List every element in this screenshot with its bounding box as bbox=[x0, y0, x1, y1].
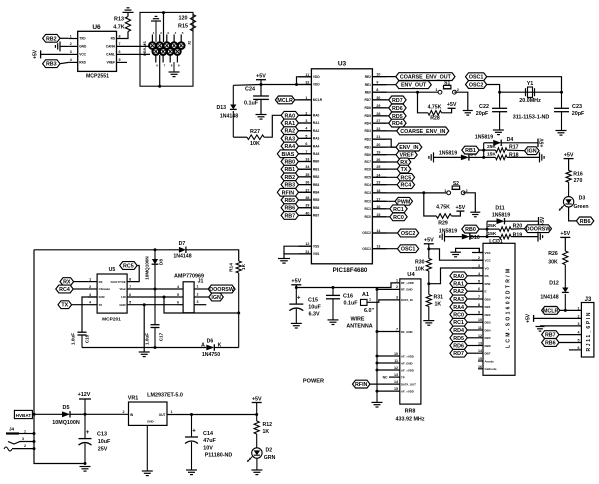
svg-text:CANL: CANL bbox=[106, 53, 115, 57]
svg-text:U5: U5 bbox=[109, 267, 116, 273]
svg-text:RD6: RD6 bbox=[392, 106, 403, 112]
node ENV_IN with jog from pin 21 bbox=[372, 139, 421, 151]
ground at J3 pin3 bbox=[536, 326, 582, 331]
node RB6 at J3 bbox=[542, 339, 582, 347]
svg-text:C14: C14 bbox=[203, 431, 213, 437]
node ENV_OUT right of U3 bbox=[372, 81, 431, 89]
svg-text:VREF: VREF bbox=[106, 61, 115, 65]
node COARSE_ENV_IN right of U3 bbox=[372, 127, 448, 135]
svg-text:1N5819: 1N5819 bbox=[439, 229, 457, 235]
node RC0 right of U3 bbox=[372, 213, 407, 221]
svg-text:RD1: RD1 bbox=[365, 145, 372, 149]
svg-text:RA4: RA4 bbox=[284, 144, 295, 150]
connector J4 power jack bbox=[4, 427, 36, 452]
wire U5 pin3 to C18 bbox=[82, 297, 97, 332]
IC U3 PIC18F4680 bbox=[311, 61, 372, 275]
svg-text:TX: TX bbox=[401, 167, 408, 173]
diode D8 10MQ100N vertical bbox=[145, 250, 165, 289]
svg-text:5: 5 bbox=[478, 280, 480, 284]
svg-text:4: 4 bbox=[177, 285, 179, 289]
capacitor C17 1.0uF bbox=[145, 289, 164, 348]
ground at S2 bbox=[470, 211, 480, 213]
node RB5 left of U3 bbox=[281, 196, 311, 204]
svg-text:RA2: RA2 bbox=[313, 129, 320, 133]
svg-text:Cathode: Cathode bbox=[485, 367, 497, 371]
node RB6 left of U3 bbox=[281, 204, 311, 212]
svg-text:RA1: RA1 bbox=[284, 121, 295, 127]
capacitor C22 20pF bbox=[476, 92, 507, 130]
svg-text:47uF: 47uF bbox=[203, 438, 216, 444]
svg-text:VR1: VR1 bbox=[128, 395, 139, 401]
label D11 1N5819 bbox=[492, 206, 510, 219]
svg-text:RC0: RC0 bbox=[393, 215, 404, 221]
svg-text:DB3: DB3 bbox=[485, 321, 491, 325]
svg-text:RR8: RR8 bbox=[405, 408, 416, 414]
svg-text:GND: GND bbox=[147, 420, 155, 424]
svg-text:DB6: DB6 bbox=[485, 344, 491, 348]
svg-text:RXD: RXD bbox=[79, 61, 86, 65]
svg-text:LCD1: LCD1 bbox=[489, 239, 503, 245]
wire U5 pin6 LIN to J1 pin5 bbox=[127, 296, 178, 299]
ground at S1 bbox=[463, 110, 473, 112]
svg-text:1.0uF: 1.0uF bbox=[71, 333, 76, 345]
svg-text:+5V: +5V bbox=[456, 205, 466, 211]
svg-text:1K: 1K bbox=[263, 429, 270, 435]
node RB2 left of U3 bbox=[281, 173, 311, 181]
node RB7 at J3 bbox=[542, 331, 582, 339]
node RA1 at LCD pin 5 bbox=[450, 280, 472, 288]
svg-text:OSC1: OSC1 bbox=[469, 75, 484, 81]
power +5V at U6 pin 3 bbox=[33, 49, 69, 59]
power +5V at VR1 output bbox=[252, 396, 262, 416]
regulator VR1 LM2937ET-5.0 bbox=[123, 393, 183, 472]
capacitor C14 47uF 10V bbox=[185, 415, 232, 471]
wire U4 pin13 NC stub bbox=[383, 375, 400, 379]
svg-text:U6: U6 bbox=[92, 24, 101, 31]
svg-text:RB0: RB0 bbox=[313, 160, 320, 164]
capacitor C15 10uF 6.3V bbox=[289, 288, 321, 324]
wire U5 pin7 Vbat to J1 pin4 bbox=[127, 288, 178, 291]
wire CANL to connector bbox=[117, 53, 151, 55]
ground under R31 bbox=[423, 320, 434, 322]
svg-text:15: 15 bbox=[478, 357, 482, 361]
svg-text:1: 1 bbox=[70, 34, 72, 38]
svg-text:D10: D10 bbox=[470, 235, 480, 241]
svg-text:1N4148: 1N4148 bbox=[540, 294, 558, 300]
resistor R20 25K bbox=[487, 223, 525, 232]
svg-text:R15: R15 bbox=[178, 23, 188, 29]
svg-text:J2: J2 bbox=[188, 41, 192, 45]
svg-text:ANTENNA: ANTENNA bbox=[346, 324, 372, 330]
svg-text:D2: D2 bbox=[266, 447, 273, 453]
wire J1 pin3 stub bbox=[199, 304, 206, 306]
svg-text:BIAS: BIAS bbox=[282, 152, 295, 158]
svg-text:VDD: VDD bbox=[313, 83, 320, 87]
capacitor C16 0.1uF bbox=[326, 288, 358, 320]
ground under C14 bbox=[186, 469, 197, 471]
wire junction vertical DOORSW cluster bbox=[486, 221, 489, 238]
svg-text:3: 3 bbox=[89, 293, 91, 297]
svg-text:C13: C13 bbox=[97, 432, 107, 438]
svg-text:RD5: RD5 bbox=[453, 336, 464, 342]
svg-text:10: 10 bbox=[478, 318, 482, 322]
IC U4 RF receiver RR8 433.92MHz bbox=[395, 272, 424, 422]
node IGN bbox=[525, 147, 540, 155]
svg-text:10uF: 10uF bbox=[308, 305, 321, 311]
node RX right of U3 bbox=[372, 158, 410, 166]
svg-text:OSC2: OSC2 bbox=[401, 231, 416, 237]
svg-text:12: 12 bbox=[478, 334, 482, 338]
svg-text:433.92 MHz: 433.92 MHz bbox=[395, 416, 424, 422]
svg-text:NC: NC bbox=[383, 375, 388, 379]
resistor R13 4.7K bbox=[113, 12, 130, 38]
svg-text:+: + bbox=[297, 296, 301, 302]
svg-text:RB3: RB3 bbox=[284, 183, 295, 189]
svg-text:RA4: RA4 bbox=[453, 305, 464, 311]
svg-text:2: 2 bbox=[197, 292, 199, 296]
svg-text:OSC1: OSC1 bbox=[362, 247, 371, 251]
ground at LCD pin1 VSS bbox=[450, 248, 483, 256]
resistor R31 1K bbox=[426, 284, 443, 321]
svg-text:RB2: RB2 bbox=[284, 175, 295, 181]
power +12V bbox=[78, 392, 91, 416]
svg-text:1: 1 bbox=[197, 284, 199, 288]
svg-text:RC1: RC1 bbox=[365, 207, 372, 211]
svg-text:RS: RS bbox=[111, 37, 115, 41]
svg-text:16: 16 bbox=[478, 365, 482, 369]
svg-text:+12V: +12V bbox=[78, 392, 91, 398]
ground above R13 bbox=[123, 11, 134, 13]
svg-text:RA5: RA5 bbox=[313, 152, 320, 156]
node RD6 at LCD pin 13 bbox=[450, 342, 472, 350]
svg-text:1: 1 bbox=[578, 306, 580, 310]
svg-text:RB7: RB7 bbox=[545, 333, 556, 339]
node RFIN left of U3 bbox=[277, 188, 311, 196]
diode D11 clamp to +5V bbox=[487, 218, 539, 224]
svg-text:VO: VO bbox=[485, 266, 490, 270]
svg-text:C24: C24 bbox=[245, 87, 255, 93]
LED D2 GRN bbox=[247, 447, 275, 470]
svg-text:R13: R13 bbox=[114, 17, 124, 23]
wire LIN branch rail under J1 bbox=[164, 297, 239, 313]
IC U6 MCP2551 CAN transceiver bbox=[69, 24, 121, 80]
node RA0 at LCD pin 4 bbox=[450, 272, 472, 280]
svg-text:RB2: RB2 bbox=[313, 175, 320, 179]
svg-text:15K: 15K bbox=[487, 151, 496, 157]
svg-text:RF_GND: RF_GND bbox=[401, 330, 413, 334]
ground under VR1 bbox=[142, 470, 153, 472]
node RD7 at LCD pin 14 bbox=[450, 349, 472, 357]
svg-text:7: 7 bbox=[396, 327, 398, 331]
svg-text:D6: D6 bbox=[207, 339, 214, 345]
svg-text:R16: R16 bbox=[573, 171, 583, 177]
svg-text:RB0: RB0 bbox=[284, 160, 295, 166]
svg-text:Anode: Anode bbox=[485, 359, 495, 363]
svg-text:2: 2 bbox=[24, 444, 26, 448]
node RD4 right of U3 bbox=[372, 119, 406, 127]
node RC1 at LCD pin 10 bbox=[450, 318, 472, 326]
svg-text:RB5: RB5 bbox=[284, 198, 295, 204]
svg-text:CS/wake: CS/wake bbox=[99, 287, 111, 291]
svg-text:20pF: 20pF bbox=[572, 111, 585, 117]
svg-text:RD5: RD5 bbox=[365, 114, 372, 118]
svg-text:270: 270 bbox=[574, 178, 583, 184]
svg-text:TXD: TXD bbox=[79, 37, 86, 41]
svg-text:J3: J3 bbox=[585, 297, 592, 303]
capacitor C13 10uF 25V bbox=[79, 414, 111, 465]
svg-text:GRN: GRN bbox=[264, 455, 276, 461]
svg-text:+5V: +5V bbox=[560, 231, 570, 237]
svg-text:R27: R27 bbox=[250, 129, 260, 135]
diode D13 1N4148 bbox=[216, 85, 238, 137]
svg-text:RFIN: RFIN bbox=[282, 190, 295, 196]
svg-text:RB1: RB1 bbox=[465, 148, 476, 154]
power +5V to LCD VCC bbox=[424, 238, 483, 261]
svg-text:2: 2 bbox=[89, 285, 91, 289]
svg-text:1N4148: 1N4148 bbox=[220, 114, 238, 120]
node RA1 left of U3 bbox=[281, 119, 311, 127]
svg-text:RB6: RB6 bbox=[545, 341, 556, 347]
connector J1 AMP770969 bbox=[174, 274, 204, 313]
svg-text:RB6: RB6 bbox=[284, 206, 295, 212]
svg-text:10MQ100N: 10MQ100N bbox=[145, 256, 150, 280]
svg-text:+5V: +5V bbox=[424, 238, 434, 244]
wire U3 RC3 to S2 bbox=[372, 191, 446, 194]
svg-text:6: 6 bbox=[129, 293, 131, 297]
resistor R19 15K bbox=[487, 231, 538, 239]
svg-text:DOORSW: DOORSW bbox=[209, 287, 235, 293]
wire U4 ground bus bbox=[376, 288, 400, 403]
svg-text:RA1: RA1 bbox=[313, 121, 320, 125]
LED D3 Green bbox=[559, 195, 589, 210]
svg-text:IGN: IGN bbox=[527, 149, 537, 155]
svg-text:GND: GND bbox=[119, 303, 125, 307]
svg-text:WIRE: WIRE bbox=[350, 317, 364, 323]
svg-text:R17: R17 bbox=[509, 144, 519, 150]
zener D6 1N4750 bbox=[201, 339, 239, 358]
resistor R29 4.75K pullup bbox=[424, 193, 461, 227]
svg-text:3: 3 bbox=[197, 300, 199, 304]
node RD7 right of U3 bbox=[372, 96, 406, 104]
resistor R27 10K bbox=[233, 115, 282, 147]
svg-text:+5V: +5V bbox=[564, 152, 574, 158]
svg-text:RD0: RD0 bbox=[365, 153, 372, 157]
svg-text:POWER: POWER bbox=[303, 379, 324, 385]
svg-text:R29: R29 bbox=[438, 221, 448, 227]
resistor R28 4.75K pullup bbox=[418, 92, 452, 121]
svg-text:VSS: VSS bbox=[313, 244, 319, 248]
svg-text:+5V: +5V bbox=[256, 74, 266, 80]
svg-text:RA2: RA2 bbox=[453, 289, 464, 295]
svg-text:AF_+VDD: AF_+VDD bbox=[401, 389, 414, 393]
node RB7 left of U3 bbox=[281, 212, 311, 220]
svg-text:P11180-ND: P11180-ND bbox=[205, 453, 233, 459]
ground under C15 bbox=[291, 322, 302, 324]
svg-text:TX: TX bbox=[99, 303, 103, 307]
power +5V above R16 bbox=[564, 152, 574, 170]
diode D10 1N5819 bbox=[462, 233, 487, 240]
svg-text:RD4: RD4 bbox=[392, 121, 403, 127]
wire +12V node to VR1 bbox=[85, 413, 129, 415]
svg-text:25K: 25K bbox=[487, 144, 496, 150]
svg-text:RD6: RD6 bbox=[453, 344, 464, 350]
svg-text:OSC2: OSC2 bbox=[469, 83, 484, 89]
svg-text:LIN: LIN bbox=[121, 295, 126, 299]
svg-text:RB7: RB7 bbox=[284, 213, 295, 219]
svg-text:RC4: RC4 bbox=[365, 183, 372, 187]
svg-text:7: 7 bbox=[478, 295, 480, 299]
svg-text:RB4: RB4 bbox=[313, 191, 320, 195]
capacitor C18 1.0uF bbox=[71, 332, 90, 347]
node RA4 left of U3 bbox=[281, 142, 311, 150]
svg-text:RD4: RD4 bbox=[453, 328, 464, 334]
svg-text:RD4: RD4 bbox=[365, 121, 372, 125]
svg-text:R30: R30 bbox=[415, 260, 425, 266]
svg-text:MCLR: MCLR bbox=[543, 308, 559, 314]
svg-text:15: 15 bbox=[394, 387, 398, 391]
svg-text:AF_+VDD: AF_+VDD bbox=[401, 368, 414, 372]
svg-text:+5V: +5V bbox=[291, 279, 301, 285]
svg-text:LM2937ET-5.0: LM2937ET-5.0 bbox=[147, 393, 183, 399]
svg-text:11: 11 bbox=[478, 326, 482, 330]
svg-text:A: A bbox=[201, 342, 205, 348]
svg-text:D12: D12 bbox=[549, 281, 559, 287]
svg-text:0.1uF: 0.1uF bbox=[244, 101, 259, 107]
svg-text:1: 1 bbox=[171, 410, 173, 414]
svg-text:4.75K: 4.75K bbox=[436, 204, 450, 210]
svg-text:13: 13 bbox=[394, 373, 398, 377]
node RA2 at LCD pin 6 bbox=[450, 287, 472, 295]
connector J3 RJ11_6PIN bbox=[578, 297, 594, 357]
switch S2 bbox=[447, 191, 451, 195]
svg-text:311-1153-1-ND: 311-1153-1-ND bbox=[513, 115, 550, 121]
power +5V at R29 bbox=[456, 210, 464, 212]
resistor R26 30K bbox=[548, 251, 568, 288]
node RB3 left of U3 bbox=[281, 181, 311, 189]
node RA2 left of U3 bbox=[281, 127, 311, 135]
diode D12 1N4148 bbox=[540, 281, 568, 311]
diode D5 10MQ100N bbox=[34, 405, 85, 426]
svg-text:R31: R31 bbox=[434, 295, 444, 301]
wire crystal net bbox=[498, 91, 563, 94]
svg-text:6: 6 bbox=[177, 301, 179, 305]
node IGN at J1 bbox=[199, 293, 223, 301]
svg-text:25V: 25V bbox=[98, 447, 108, 453]
node OSC1 right of U3 bbox=[372, 245, 418, 253]
svg-text:8: 8 bbox=[478, 303, 480, 307]
ground inside connector box bottom bbox=[169, 62, 180, 77]
svg-text:RB3: RB3 bbox=[46, 62, 57, 68]
ground at U6 pin 2 bbox=[55, 41, 68, 51]
svg-text:1K: 1K bbox=[435, 302, 442, 308]
node RC4 at U5 bbox=[56, 285, 88, 293]
svg-text:DB5: DB5 bbox=[485, 336, 491, 340]
svg-text:E: E bbox=[485, 290, 487, 294]
svg-text:+: + bbox=[86, 430, 90, 436]
svg-text:OSC2: OSC2 bbox=[362, 231, 371, 235]
svg-text:+5V: +5V bbox=[33, 49, 39, 59]
svg-text:C16: C16 bbox=[343, 294, 353, 300]
svg-text:3: 3 bbox=[22, 437, 24, 441]
svg-text:ENV_IN: ENV_IN bbox=[399, 145, 418, 151]
svg-text:Vbat: Vbat bbox=[120, 287, 126, 291]
wire ground rail of LIN section bbox=[82, 347, 206, 349]
svg-text:RA4: RA4 bbox=[313, 144, 320, 148]
svg-text:10K: 10K bbox=[250, 141, 260, 147]
svg-text:RC4: RC4 bbox=[401, 183, 412, 189]
svg-text:10K: 10K bbox=[415, 266, 425, 272]
svg-text:RD7: RD7 bbox=[365, 98, 372, 102]
wire S1 to ground bbox=[454, 92, 467, 110]
wire GND branch down bbox=[143, 305, 145, 348]
svg-text:RC6: RC6 bbox=[365, 167, 372, 171]
svg-text:RD3: RD3 bbox=[365, 129, 372, 133]
svg-text:4: 4 bbox=[70, 58, 72, 62]
svg-text:3: 3 bbox=[70, 50, 72, 54]
svg-text:HVBAT: HVBAT bbox=[16, 413, 32, 418]
svg-text:C23: C23 bbox=[572, 104, 582, 110]
diode D7 1N4148 in top rail bbox=[173, 241, 238, 261]
resistor R14 1K bbox=[228, 261, 247, 348]
node VREF right of U3 bbox=[372, 151, 417, 159]
U3 left pin stubs bbox=[298, 73, 322, 256]
ground rotated left for D10 bbox=[440, 232, 462, 242]
svg-text:R/W: R/W bbox=[485, 282, 491, 286]
ground U3 VSS bbox=[278, 258, 290, 260]
svg-text:+5V: +5V bbox=[252, 396, 262, 402]
svg-text:R26: R26 bbox=[548, 251, 558, 257]
svg-text:5: 5 bbox=[177, 293, 179, 297]
svg-text:FAULT/TXE: FAULT/TXE bbox=[111, 280, 126, 284]
svg-text:RD7: RD7 bbox=[392, 98, 403, 104]
power +5V rotated at J3 pin2 bbox=[526, 313, 582, 323]
ground under C24 bbox=[256, 114, 267, 116]
power +5V above C24 bbox=[256, 74, 266, 85]
svg-text:VDD: VDD bbox=[313, 75, 320, 79]
svg-text:RD2: RD2 bbox=[365, 137, 372, 141]
node MCLR at J3 bbox=[542, 307, 582, 315]
resistor R18 15K bbox=[484, 151, 540, 159]
wire vertical top in connector box bbox=[162, 11, 165, 42]
svg-text:2: 2 bbox=[123, 410, 125, 414]
svg-text:1: 1 bbox=[89, 277, 91, 281]
LCD LCD1 LCM-SO1602DTR/M bbox=[483, 239, 515, 375]
svg-text:3: 3 bbox=[396, 296, 398, 300]
svg-text:RC7: RC7 bbox=[365, 160, 372, 164]
svg-text:+5V: +5V bbox=[540, 138, 546, 148]
svg-text:6.3V: 6.3V bbox=[308, 312, 319, 318]
wire vertical bottom in connector box bbox=[158, 55, 161, 88]
svg-text:S2: S2 bbox=[453, 181, 459, 187]
svg-text:CANH: CANH bbox=[106, 45, 116, 49]
svg-text:10MQ100N: 10MQ100N bbox=[52, 420, 80, 426]
wire junction vertical IGN cluster bbox=[482, 143, 485, 159]
svg-text:LCM-SO1602DTR/M: LCM-SO1602DTR/M bbox=[506, 269, 512, 348]
svg-text:1N5819: 1N5819 bbox=[475, 135, 493, 141]
node RD6 right of U3 bbox=[372, 104, 406, 112]
switch S1 bbox=[438, 90, 442, 94]
svg-text:RB2: RB2 bbox=[46, 36, 57, 42]
svg-text:TP: TP bbox=[401, 375, 405, 379]
svg-text:R19: R19 bbox=[513, 232, 523, 238]
node OSC2 right of U3 bbox=[372, 229, 418, 237]
svg-text:RF_GND: RF_GND bbox=[401, 288, 413, 292]
svg-text:RE2: RE2 bbox=[365, 75, 371, 79]
node OSC2 to crystal bbox=[466, 81, 500, 93]
svg-text:COARSE_ENV_IN: COARSE_ENV_IN bbox=[400, 129, 445, 135]
power +5V at C15 bbox=[291, 279, 301, 288]
svg-text:IGN: IGN bbox=[211, 295, 221, 301]
